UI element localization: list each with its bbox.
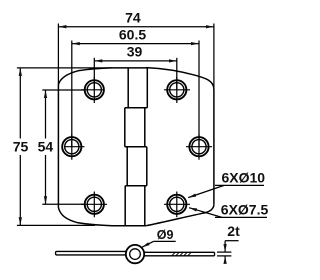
- svg-text:74: 74: [125, 9, 141, 25]
- svg-text:Ø9: Ø9: [157, 228, 174, 242]
- svg-text:6XØ10: 6XØ10: [222, 170, 266, 186]
- svg-text:6XØ7.5: 6XØ7.5: [221, 202, 269, 218]
- svg-text:75: 75: [13, 138, 29, 154]
- svg-text:54: 54: [38, 138, 54, 154]
- svg-text:60.5: 60.5: [119, 26, 146, 42]
- svg-text:39: 39: [127, 44, 143, 60]
- svg-text:2t: 2t: [227, 223, 240, 239]
